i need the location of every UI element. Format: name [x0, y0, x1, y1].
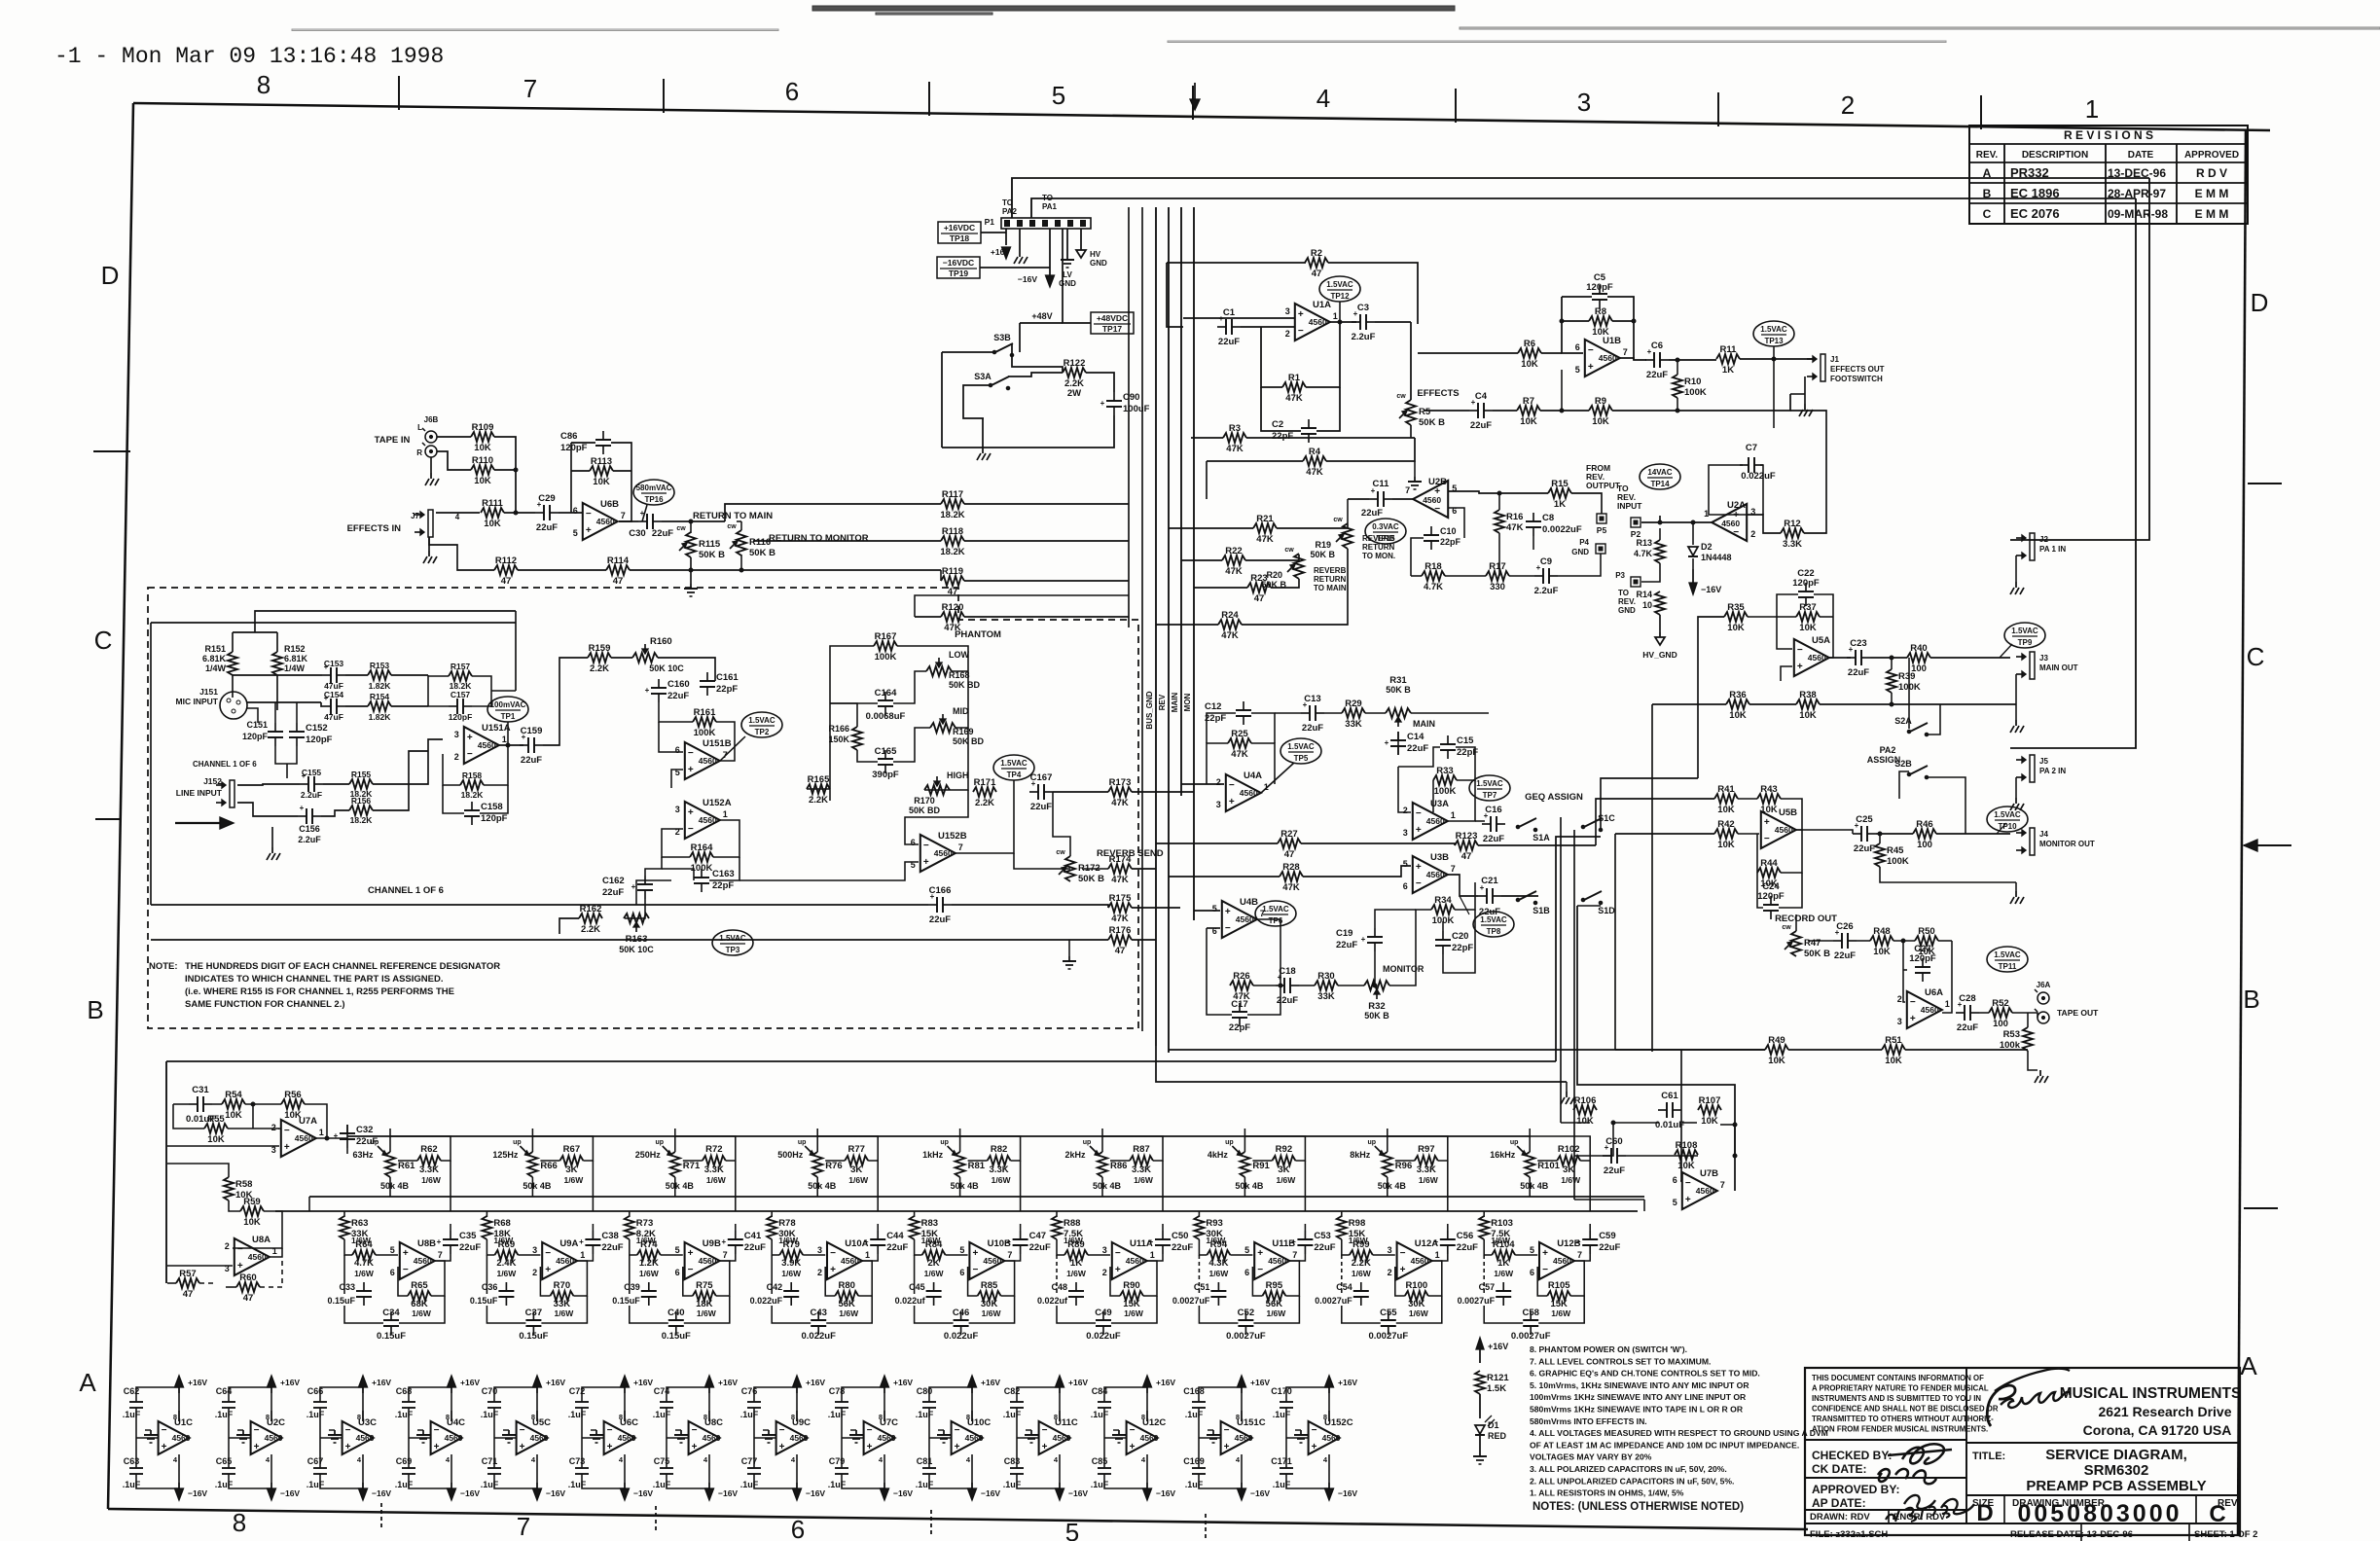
- capacitor C49: [1086, 1308, 1121, 1342]
- svg-text:R E V I S I O N S: R E V I S I O N S: [2064, 128, 2153, 142]
- svg-text:22uF: 22uF: [1599, 1242, 1620, 1253]
- wire C2 loop: [1261, 387, 1340, 431]
- potentiometer R169 MID: [930, 706, 985, 746]
- svg-text:1/6W: 1/6W: [1352, 1269, 1372, 1278]
- svg-text:C81: C81: [917, 1456, 933, 1466]
- svg-text:SRM6302: SRM6302: [2084, 1462, 2149, 1479]
- svg-text:R100: R100: [1405, 1280, 1427, 1291]
- svg-text:B: B: [2243, 985, 2259, 1014]
- svg-text:GND: GND: [1090, 259, 1107, 268]
- resistor R56: [281, 1090, 305, 1121]
- svg-text:4: 4: [357, 1455, 362, 1464]
- svg-text:U152A: U152A: [703, 798, 732, 808]
- svg-text:4560: 4560: [1236, 914, 1254, 924]
- svg-text:120pF: 120pF: [1792, 578, 1820, 589]
- svg-text:1kHz: 1kHz: [922, 1150, 944, 1160]
- resistor R113: [590, 456, 613, 487]
- svg-text:22uF: 22uF: [1646, 370, 1668, 380]
- svg-text:R40: R40: [1910, 643, 1927, 654]
- wire line input paths: [237, 739, 443, 847]
- svg-text:2.2K: 2.2K: [809, 795, 828, 806]
- resistor R67: [559, 1144, 584, 1185]
- svg-text:−16V: −16V: [981, 1488, 1000, 1498]
- label CHANNEL 1 OF 6 lower: [368, 885, 444, 896]
- wire R117 bus right: [915, 504, 1129, 617]
- svg-text:GND: GND: [1059, 279, 1076, 288]
- svg-text:−: −: [1224, 1425, 1230, 1436]
- svg-text:22uF: 22uF: [602, 887, 624, 898]
- svg-text:C161: C161: [716, 672, 739, 683]
- svg-text:5: 5: [1244, 1245, 1249, 1255]
- svg-text:0.15uF: 0.15uF: [470, 1296, 498, 1306]
- resistor R25: [1228, 729, 1251, 760]
- svg-text:R105: R105: [1548, 1280, 1570, 1291]
- svg-text:R43: R43: [1760, 784, 1777, 795]
- svg-text:R160: R160: [650, 636, 672, 647]
- svg-text:8: 8: [791, 1413, 795, 1421]
- svg-text:EFFECTS OUT: EFFECTS OUT: [1830, 365, 1885, 374]
- svg-text:C159: C159: [521, 726, 543, 736]
- svg-text:C25: C25: [1856, 814, 1873, 825]
- svg-text:U151B: U151B: [703, 738, 732, 749]
- wire effects return line: [1424, 370, 1790, 412]
- svg-text:R41: R41: [1717, 784, 1735, 795]
- svg-text:D: D: [2251, 288, 2269, 317]
- svg-text:1: 1: [580, 1250, 585, 1260]
- capacitor C41: [721, 1231, 766, 1254]
- capacitor C7: [1740, 443, 1776, 482]
- wire U6B feedback: [571, 443, 631, 521]
- svg-text:ATION FROM FENDER MUSICAL INST: ATION FROM FENDER MUSICAL INSTRUMENTS.: [1812, 1425, 1988, 1434]
- svg-text:10K: 10K: [1717, 840, 1735, 850]
- svg-text:+: +: [284, 1142, 290, 1153]
- svg-text:10K: 10K: [1799, 710, 1817, 721]
- capacitor C26: [1833, 921, 1857, 961]
- svg-text:1.5VAC: 1.5VAC: [719, 934, 746, 943]
- svg-text:C20: C20: [1452, 931, 1468, 942]
- wire R3: [1191, 437, 1415, 439]
- svg-text:A: A: [79, 1368, 96, 1397]
- +16V arrow from P1 pin1: [991, 229, 1011, 259]
- svg-text:R27: R27: [1280, 829, 1297, 840]
- resistor R153: [368, 661, 391, 691]
- resistor R11: [1716, 344, 1740, 376]
- svg-text:22uF: 22uF: [1483, 834, 1504, 844]
- svg-text:−: −: [1130, 1425, 1136, 1436]
- resistor R165: [807, 774, 830, 806]
- svg-text:18.2K: 18.2K: [461, 790, 485, 800]
- svg-text:TO MON.: TO MON.: [1362, 552, 1395, 560]
- svg-text:TP19: TP19: [949, 269, 969, 278]
- resistor R22: [1222, 546, 1245, 577]
- op-amp U11B: [1244, 1238, 1297, 1279]
- svg-text:R35: R35: [1727, 602, 1745, 613]
- RCA jack J6A TAPE OUT R: [2035, 1008, 2099, 1023]
- svg-text:R71: R71: [683, 1161, 701, 1171]
- svg-text:TO: TO: [1618, 589, 1629, 597]
- svg-text:U4A: U4A: [1244, 770, 1262, 781]
- svg-text:R111: R111: [482, 498, 503, 509]
- svg-text:3.3K: 3.3K: [704, 1165, 724, 1175]
- svg-text:1N4448: 1N4448: [1701, 553, 1732, 562]
- switch S1B: [1516, 891, 1550, 915]
- resistor R105: [1547, 1280, 1571, 1318]
- wire U3A cluster: [1398, 732, 1485, 821]
- svg-text:−: −: [972, 1265, 978, 1275]
- svg-text:C86: C86: [560, 431, 577, 442]
- wire band 250Hz top: [675, 1129, 736, 1211]
- svg-text:C90: C90: [1123, 392, 1139, 403]
- svg-text:22uF: 22uF: [601, 1242, 623, 1253]
- svg-text:R96: R96: [1395, 1161, 1412, 1171]
- svg-text:+: +: [1291, 1237, 1296, 1246]
- svg-text:1.5VAC: 1.5VAC: [1000, 759, 1028, 768]
- op-amp U4B: [1212, 897, 1265, 938]
- svg-text:+16V: +16V: [633, 1378, 653, 1387]
- svg-text:TRANSMITTED TO OTHERS WITHOUT: TRANSMITTED TO OTHERS WITHOUT AUTHORIZ-: [1812, 1415, 1994, 1423]
- svg-text:4: 4: [1236, 1455, 1241, 1464]
- svg-text:10K: 10K: [1799, 623, 1817, 633]
- svg-text:7: 7: [1405, 485, 1410, 495]
- svg-text:C67: C67: [307, 1456, 324, 1466]
- svg-text:U12C: U12C: [1142, 1417, 1166, 1428]
- test point TP12: [1319, 276, 1360, 302]
- test point TP9: [2004, 623, 2045, 648]
- resistor R80: [835, 1280, 859, 1318]
- svg-text:C58: C58: [1522, 1308, 1538, 1318]
- capacitor C20: [1435, 931, 1473, 954]
- svg-text:DATE: DATE: [2128, 150, 2154, 161]
- capacitor C3: [1352, 303, 1376, 342]
- svg-text:−: −: [1797, 645, 1803, 656]
- svg-text:22uF: 22uF: [1336, 940, 1357, 950]
- capacitor C159: [520, 726, 543, 766]
- switch S3B: [992, 333, 1014, 357]
- svg-text:U9A: U9A: [559, 1238, 578, 1249]
- svg-text:R12: R12: [1784, 519, 1800, 529]
- svg-text:C79: C79: [829, 1456, 846, 1466]
- capacitor C35: [437, 1231, 482, 1254]
- wire U2B right side: [1411, 491, 1602, 576]
- capacitor C46: [944, 1308, 979, 1342]
- svg-text:22uF: 22uF: [1407, 743, 1428, 754]
- label 8kHz: [1350, 1150, 1371, 1160]
- svg-text:50k 4B: 50k 4B: [1378, 1181, 1407, 1191]
- resistor R94: [1207, 1239, 1230, 1278]
- wire R2 to C3 node: [1328, 263, 1418, 324]
- svg-text:−16VDC: −16VDC: [943, 258, 974, 268]
- svg-text:L: L: [417, 423, 422, 432]
- resistor R4: [1303, 447, 1326, 478]
- diode D2: [1688, 542, 1732, 562]
- svg-text:100mVrms 1KHz SINEWAVE INTO AN: 100mVrms 1KHz SINEWAVE INTO ANY LINE INP…: [1530, 1392, 1747, 1402]
- svg-text:BUS_GND: BUS_GND: [1145, 691, 1154, 729]
- wire mid mix lines: [1156, 843, 1596, 877]
- svg-text:-1 - Mon Mar 09 13:16:48 1998: -1 - Mon Mar 09 13:16:48 1998: [54, 44, 444, 69]
- svg-text:−: −: [1910, 997, 1916, 1008]
- svg-text:C9: C9: [1540, 556, 1552, 567]
- label GEQ ASSIGN: [1525, 792, 1583, 803]
- svg-text:4560: 4560: [1268, 1256, 1286, 1266]
- svg-text:6: 6: [785, 77, 799, 106]
- test point TP3: [712, 930, 753, 955]
- row letters right: [2240, 288, 2268, 1380]
- top ruler column numbers: [257, 70, 2099, 124]
- svg-text:10K: 10K: [243, 1217, 261, 1228]
- svg-text:TP8: TP8: [1487, 927, 1501, 936]
- svg-text:47K: 47K: [1221, 630, 1239, 641]
- svg-text:J6B: J6B: [424, 415, 439, 424]
- capacitor C61: [1655, 1091, 1684, 1130]
- svg-text:1.5VAC: 1.5VAC: [2011, 627, 2038, 635]
- svg-text:1.5VAC: 1.5VAC: [1994, 950, 2021, 959]
- ground below J3: [2010, 720, 2024, 733]
- wire J7 to R111: [436, 513, 480, 521]
- svg-text:S1D: S1D: [1598, 906, 1615, 915]
- svg-text:R9: R9: [1595, 396, 1606, 407]
- ground reverb send: [1063, 956, 1076, 969]
- capacitor C6: [1645, 340, 1669, 380]
- svg-text:R110: R110: [472, 455, 493, 466]
- svg-text:22uF: 22uF: [536, 522, 558, 533]
- svg-text:4: 4: [531, 1455, 536, 1464]
- svg-text:8: 8: [1141, 1413, 1145, 1421]
- svg-text:+: +: [779, 1442, 785, 1452]
- svg-text:AP DATE:: AP DATE:: [1812, 1496, 1866, 1510]
- resistor R26: [1230, 971, 1253, 1002]
- svg-text:R65: R65: [411, 1280, 428, 1291]
- svg-text:50K B: 50K B: [1804, 949, 1830, 959]
- wire U8A cluster: [167, 1164, 282, 1287]
- svg-text:0.0027uF: 0.0027uF: [1458, 1296, 1496, 1306]
- svg-text:TP13: TP13: [1764, 337, 1784, 345]
- svg-text:RETURN TO MONITOR: RETURN TO MONITOR: [769, 533, 869, 544]
- svg-text:6: 6: [390, 1268, 395, 1277]
- svg-text:3.3K: 3.3K: [1132, 1165, 1151, 1175]
- svg-text:U2A: U2A: [1727, 500, 1746, 511]
- svg-text:47K: 47K: [1111, 798, 1129, 808]
- svg-text:2W: 2W: [1067, 388, 1081, 399]
- svg-text:+: +: [1588, 362, 1594, 373]
- label REVERB RETURN TO MON: [1362, 534, 1395, 560]
- svg-text:4560: 4560: [1235, 1433, 1253, 1443]
- svg-text:8: 8: [531, 1413, 535, 1421]
- svg-text:C69: C69: [396, 1456, 413, 1466]
- svg-text:R76: R76: [825, 1161, 842, 1171]
- svg-text:1/4W: 1/4W: [205, 663, 227, 673]
- svg-text:−: −: [1416, 808, 1422, 819]
- resistor R117: [940, 489, 964, 520]
- svg-text:3.3K: 3.3K: [990, 1165, 1009, 1175]
- svg-text:4560: 4560: [790, 1433, 809, 1443]
- wire geq assign buses: [1538, 778, 1698, 1200]
- potentiometer R20 reverb return to main: [1261, 547, 1304, 590]
- resistor R84: [922, 1239, 946, 1278]
- resistor R21: [1253, 514, 1277, 545]
- svg-text:1/6W: 1/6W: [1266, 1308, 1286, 1318]
- svg-text:8: 8: [879, 1413, 883, 1421]
- op-amp U6B: [573, 499, 626, 540]
- svg-text:+: +: [923, 857, 929, 868]
- svg-text:.1uF: .1uF: [481, 1410, 499, 1419]
- resistor R33: [1433, 766, 1457, 797]
- pad P2: [1631, 518, 1641, 539]
- resistor R79: [779, 1239, 803, 1278]
- potentiometer R5 EFFECTS: [1396, 388, 1459, 428]
- svg-text:+: +: [1149, 1237, 1154, 1246]
- svg-text:up: up: [513, 1139, 522, 1146]
- svg-text:22uF: 22uF: [1604, 1165, 1625, 1176]
- svg-text:INPUT: INPUT: [1617, 501, 1642, 511]
- svg-text:R85: R85: [981, 1280, 998, 1291]
- svg-text:4.7K: 4.7K: [1634, 549, 1653, 558]
- svg-text:R77: R77: [847, 1144, 864, 1155]
- op-amp U12B: [1530, 1238, 1582, 1279]
- svg-text:3.3K: 3.3K: [1783, 539, 1802, 550]
- ground line input: [267, 847, 280, 860]
- svg-text:1.82K: 1.82K: [369, 712, 392, 722]
- svg-text:10K: 10K: [1873, 947, 1891, 957]
- svg-text:1.5VAC: 1.5VAC: [1262, 905, 1289, 914]
- svg-text:C2: C2: [1272, 419, 1283, 430]
- svg-text:VOLTAGES MAY VARY BY 20%: VOLTAGES MAY VARY BY 20%: [1530, 1452, 1652, 1462]
- resistor R16: [1495, 510, 1524, 533]
- bus BUS_GND: [1145, 207, 1156, 1046]
- svg-text:−: −: [345, 1425, 351, 1436]
- potentiometer R32 MONITOR: [1364, 964, 1424, 1021]
- svg-text:0.0027uF: 0.0027uF: [1226, 1331, 1266, 1342]
- svg-text:TAPE OUT: TAPE OUT: [2057, 1008, 2099, 1018]
- svg-text:U152B: U152B: [938, 831, 967, 842]
- op-amp U2A: [1704, 500, 1755, 541]
- svg-text:R61: R61: [398, 1161, 415, 1171]
- svg-text:7. ALL LEVEL CONTROLS SET TO M: 7. ALL LEVEL CONTROLS SET TO MAXIMUM.: [1530, 1356, 1711, 1366]
- svg-text:J6A: J6A: [2037, 981, 2051, 989]
- svg-text:47K: 47K: [1231, 749, 1248, 760]
- svg-text:+: +: [1312, 1442, 1317, 1452]
- capacitor C1: [1217, 307, 1241, 347]
- svg-text:+: +: [437, 1237, 442, 1246]
- svg-text:C52: C52: [1238, 1308, 1254, 1318]
- capacitor C33: [327, 1282, 372, 1306]
- label 16kHz: [1490, 1150, 1516, 1160]
- svg-text:+: +: [1006, 1237, 1011, 1246]
- wire phantom feed: [233, 611, 516, 710]
- svg-text:50k 4B: 50k 4B: [951, 1181, 980, 1191]
- svg-text:CHANNEL 1 OF 6: CHANNEL 1 OF 6: [193, 760, 257, 769]
- svg-text:4560: 4560: [265, 1433, 283, 1443]
- svg-text:MONITOR: MONITOR: [1383, 964, 1424, 974]
- wire band 4kHz top: [1244, 1129, 1305, 1211]
- svg-text:.1uF: .1uF: [123, 1410, 141, 1419]
- switch S2B: [1894, 759, 1929, 779]
- svg-text:C32: C32: [356, 1125, 373, 1135]
- svg-text:3: 3: [532, 1245, 537, 1255]
- wires switch area: [942, 323, 1114, 448]
- resistor R175: [1108, 893, 1132, 924]
- svg-text:R113: R113: [591, 456, 612, 467]
- svg-text:.1uF: .1uF: [916, 1410, 934, 1419]
- wire record out chain: [1796, 914, 2037, 1070]
- svg-text:1: 1: [865, 1250, 870, 1260]
- resistor R99: [1350, 1239, 1373, 1278]
- resistor R52: [1989, 998, 2012, 1029]
- svg-text:Corona, CA 91720 USA: Corona, CA 91720 USA: [2083, 1422, 2232, 1438]
- jack J3 MAIN OUT: [2016, 652, 2078, 679]
- ground below J5: [2010, 777, 2024, 810]
- svg-text:−: −: [692, 1425, 698, 1436]
- svg-text:C29: C29: [538, 493, 555, 504]
- svg-text:R56: R56: [284, 1090, 301, 1100]
- svg-text:0.3VAC: 0.3VAC: [1372, 522, 1399, 531]
- svg-text:3: 3: [675, 805, 680, 814]
- svg-text:2: 2: [225, 1241, 230, 1251]
- svg-text:U3B: U3B: [1430, 852, 1449, 863]
- capacitor C34: [377, 1308, 406, 1342]
- svg-text:C158: C158: [481, 802, 503, 812]
- svg-text:22uF: 22uF: [929, 914, 951, 925]
- label 2kHz: [1064, 1150, 1086, 1160]
- svg-text:+: +: [640, 509, 645, 518]
- capacitor C23: [1847, 638, 1870, 678]
- svg-text:C162: C162: [602, 876, 625, 886]
- svg-text:MID: MID: [953, 706, 969, 716]
- svg-text:C33: C33: [339, 1282, 355, 1292]
- svg-text:1.5K: 1.5K: [1487, 1383, 1506, 1394]
- svg-text:+: +: [520, 1442, 525, 1452]
- svg-text:2.2uF: 2.2uF: [301, 790, 322, 800]
- svg-text:2K: 2K: [928, 1258, 940, 1269]
- wire band 250Hz body: [630, 1211, 736, 1323]
- svg-text:C1: C1: [1223, 307, 1236, 318]
- svg-text:−16V: −16V: [460, 1488, 480, 1498]
- capacitor C90: [1100, 392, 1150, 415]
- svg-text:R53: R53: [2003, 1029, 2020, 1040]
- svg-text:TO MAIN: TO MAIN: [1314, 584, 1347, 592]
- svg-text:8: 8: [173, 1413, 177, 1421]
- svg-text:−: −: [688, 1265, 694, 1275]
- svg-text:7: 7: [1451, 864, 1456, 874]
- svg-text:4560: 4560: [699, 815, 717, 825]
- svg-text:−16V: −16V: [1701, 585, 1721, 594]
- svg-text:P4: P4: [1579, 538, 1589, 547]
- svg-text:22uF: 22uF: [1361, 508, 1383, 519]
- svg-text:TAPE IN: TAPE IN: [375, 435, 411, 446]
- svg-text:4560: 4560: [530, 1433, 549, 1443]
- svg-text:R10: R10: [1684, 376, 1701, 387]
- svg-text:TITLE:: TITLE:: [1972, 1451, 2005, 1462]
- svg-text:1.5VAC: 1.5VAC: [1480, 915, 1507, 924]
- svg-text:R67: R67: [563, 1144, 580, 1155]
- op-amp U152A: [675, 798, 732, 839]
- svg-text:C17: C17: [1231, 999, 1247, 1010]
- svg-text:up: up: [1225, 1139, 1234, 1146]
- capacitor C55: [1368, 1308, 1408, 1342]
- svg-text:R14: R14: [1636, 590, 1652, 599]
- svg-text:+: +: [830, 1265, 836, 1275]
- svg-text:+: +: [688, 765, 694, 775]
- label RETURN TO MONITOR: [769, 533, 869, 544]
- wire R36 R38 line: [1652, 674, 2016, 1052]
- svg-text:10K: 10K: [474, 443, 491, 453]
- svg-text:C57: C57: [1479, 1282, 1496, 1292]
- svg-text:R167: R167: [875, 631, 897, 642]
- svg-text:4: 4: [266, 1455, 270, 1464]
- capacitor C21: [1478, 876, 1501, 917]
- wire R172 node: [1014, 792, 1156, 869]
- svg-text:up: up: [1368, 1139, 1377, 1146]
- svg-text:R48: R48: [1873, 926, 1890, 937]
